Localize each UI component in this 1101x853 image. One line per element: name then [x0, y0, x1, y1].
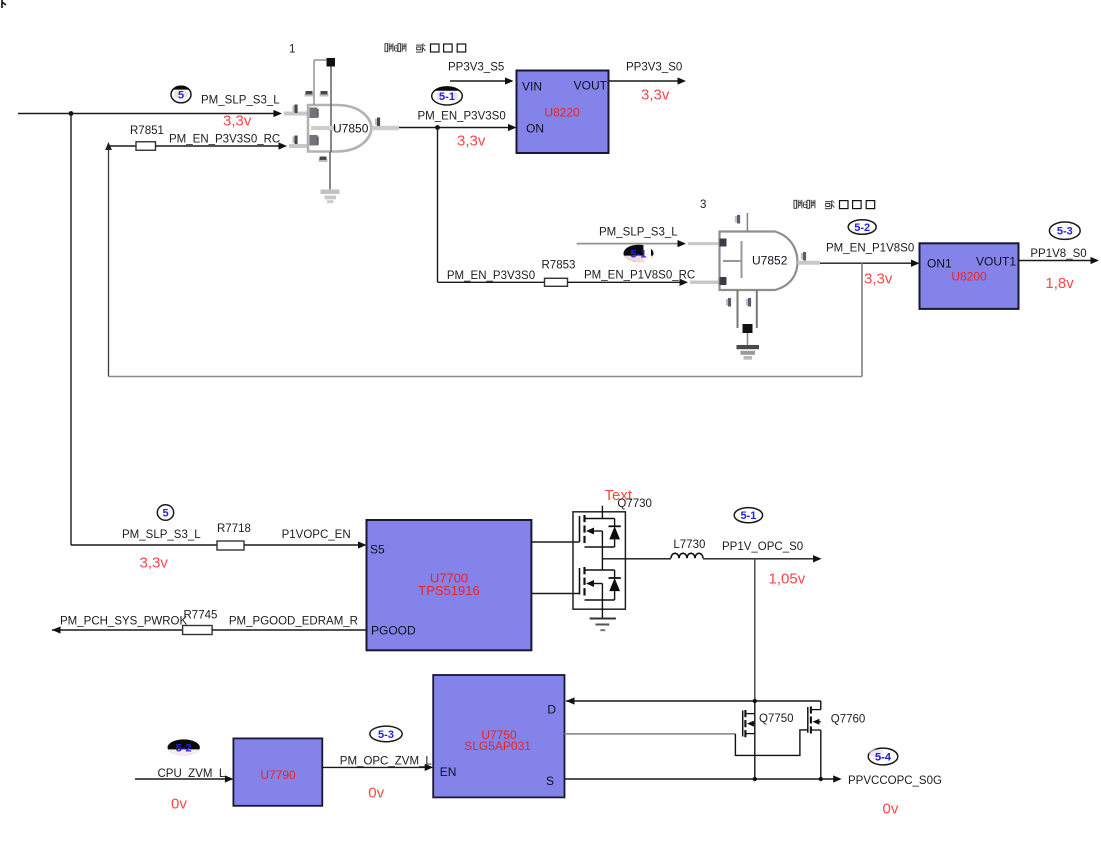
svg-text:0v: 0v	[883, 801, 899, 818]
svg-text:S: S	[546, 774, 554, 788]
svg-text:VOUT: VOUT	[574, 79, 608, 93]
svg-text:U8220: U8220	[544, 106, 580, 120]
svg-text:PGOOD: PGOOD	[371, 624, 416, 638]
svg-text:PM_EN_P3V3S0: PM_EN_P3V3S0	[418, 111, 506, 123]
svg-text:R7851: R7851	[130, 125, 164, 137]
svg-text:0v: 0v	[368, 785, 384, 802]
svg-text:PP1V8_S0: PP1V8_S0	[1030, 248, 1086, 260]
svg-text:PM_EN_P1V8S0_RC: PM_EN_P1V8S0_RC	[584, 270, 695, 282]
svg-text:PM_SLP_S3_L: PM_SLP_S3_L	[201, 95, 280, 107]
svg-text:U7852: U7852	[752, 254, 788, 268]
svg-text:3,3v: 3,3v	[641, 87, 670, 104]
svg-text:5-2: 5-2	[854, 222, 870, 234]
svg-text:PM_EN_P3V3S0: PM_EN_P3V3S0	[447, 270, 535, 282]
svg-text:1: 1	[289, 44, 295, 56]
svg-text:1,05v: 1,05v	[769, 571, 806, 588]
svg-text:PM_PCH_SYS_PWROK: PM_PCH_SYS_PWROK	[60, 616, 188, 628]
svg-text:CPU_ZVM_L: CPU_ZVM_L	[158, 768, 226, 780]
svg-text:3,3v: 3,3v	[140, 555, 169, 572]
svg-text:3,3v: 3,3v	[223, 113, 252, 130]
svg-text:U7850: U7850	[333, 122, 369, 136]
svg-text:PM_SLP_S3_L: PM_SLP_S3_L	[599, 227, 678, 239]
svg-text:L7730: L7730	[673, 539, 705, 551]
svg-text:PPVCCOPC_S0G: PPVCCOPC_S0G	[848, 775, 942, 787]
svg-text:1,8v: 1,8v	[1045, 275, 1074, 292]
svg-text:EN: EN	[440, 765, 457, 779]
svg-text:R7718: R7718	[217, 523, 251, 535]
svg-text:0v: 0v	[171, 796, 187, 813]
svg-text:3,3v: 3,3v	[457, 133, 486, 150]
svg-text:5: 5	[178, 90, 184, 102]
svg-text:Q7760: Q7760	[831, 713, 866, 725]
svg-text:PM_PGOOD_EDRAM_R: PM_PGOOD_EDRAM_R	[229, 616, 358, 628]
svg-text:D: D	[547, 703, 556, 717]
svg-text:5-1: 5-1	[439, 91, 455, 103]
svg-text:TPS51916: TPS51916	[418, 583, 479, 598]
svg-text:PM_OPC_ZVM_L: PM_OPC_ZVM_L	[340, 756, 433, 768]
svg-text:5-1: 5-1	[740, 510, 756, 522]
svg-text:ON1: ON1	[927, 257, 952, 271]
svg-text:PP1V_OPC_S0: PP1V_OPC_S0	[722, 541, 803, 553]
svg-text:R7745: R7745	[184, 610, 218, 622]
svg-text:PM_EN_P1V8S0: PM_EN_P1V8S0	[826, 242, 914, 254]
svg-text:5-1: 5-1	[631, 248, 647, 260]
svg-text:PM_EN_P3V3S0_RC: PM_EN_P3V3S0_RC	[169, 134, 280, 146]
svg-text:R7853: R7853	[542, 260, 576, 272]
svg-text:U8200: U8200	[951, 270, 987, 284]
svg-text:3,3v: 3,3v	[864, 271, 893, 288]
svg-text:PP3V3_S0: PP3V3_S0	[626, 62, 682, 74]
svg-text:SLG5AP031: SLG5AP031	[464, 739, 531, 753]
svg-text:ON: ON	[526, 122, 544, 136]
svg-text:U7790: U7790	[260, 768, 296, 782]
svg-text:VIN: VIN	[522, 80, 542, 94]
svg-text:P1VOPC_EN: P1VOPC_EN	[282, 529, 351, 541]
svg-text:5-3: 5-3	[1057, 226, 1073, 238]
svg-text:Q7730: Q7730	[617, 498, 652, 510]
svg-text:5-4: 5-4	[875, 752, 892, 764]
svg-text:PP3V3_S5: PP3V3_S5	[448, 62, 504, 74]
svg-text:PM_SLP_S3_L: PM_SLP_S3_L	[122, 529, 201, 541]
svg-text:3: 3	[700, 199, 706, 211]
svg-text:S5: S5	[370, 543, 385, 557]
svg-text:5-2: 5-2	[176, 742, 192, 754]
svg-text:5: 5	[162, 508, 168, 520]
svg-text:5-3: 5-3	[378, 729, 394, 741]
svg-text:VOUT1: VOUT1	[976, 254, 1016, 268]
svg-text:Q7750: Q7750	[759, 713, 794, 725]
